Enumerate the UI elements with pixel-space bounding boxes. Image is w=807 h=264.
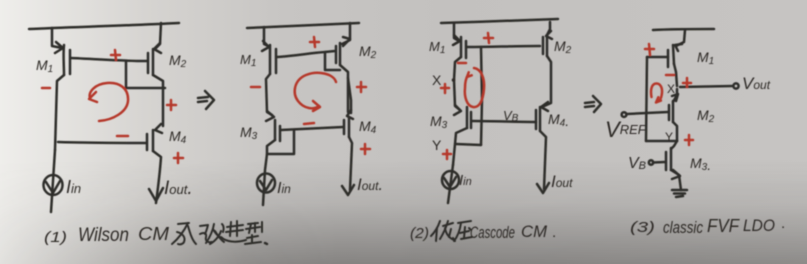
hanzi JI (and) [172, 223, 196, 244]
wire M1 source down left column [55, 75, 64, 150]
svg-text:Cascode: Cascode [470, 223, 515, 242]
wire feedback to Y node (circuit 4) [646, 140, 677, 143]
label M1 (circuit 2) [240, 52, 256, 69]
label VB (circuit 4) [628, 155, 646, 172]
red plus below M4 [174, 153, 183, 163]
arrow Iin chevron (circuit 2) [260, 180, 272, 190]
wire M1 source down to X and M3 (circuit 3) [454, 57, 461, 110]
transistor M1 arrow into channel (circuit 2) [262, 41, 269, 51]
wire M1 source lead from rail (circuit 4) [676, 30, 685, 46]
svg-text:M4.: M4. [548, 111, 569, 129]
svg-text:Wilson: Wilson [78, 225, 129, 246]
wire Y to feedback vertical (circuit 3) [456, 144, 481, 145]
transistor M2 arrow into channel [154, 43, 161, 53]
wire M2 source lead from rail (circuit 3) [547, 22, 550, 35]
transistor M3 arrow (circuit 3) [454, 105, 461, 115]
ground symbol (circuit 4) [672, 190, 687, 197]
transistor M2 channel bar (circuit 2) [339, 43, 342, 65]
transistor M2 arrow (circuit 4) [672, 94, 678, 101]
wire M1 drain lead from rail [52, 28, 62, 48]
red rotation arrow (circuit 4) [651, 84, 662, 102]
svg-text:(2): (2) [410, 225, 429, 242]
wire VB gate rail M3 to M4 (circuit 3) [472, 121, 536, 122]
red annotations circuit 4 [645, 44, 693, 145]
svg-text:Y: Y [432, 137, 442, 153]
wire M3 diode connection (circuit 2) [267, 131, 294, 154]
caption 1: (1) Wilson CM and improved type [44, 224, 169, 246]
transistor M4 channel bar (circuit 2) [348, 117, 351, 137]
transistor M1 gate bar [69, 50, 72, 74]
wire M1 gate to M2 gate (circuit 3) [467, 46, 540, 47]
svg-text:.: . [552, 224, 556, 241]
label M2 (circuit 1) [169, 52, 187, 70]
label M4 (circuit 1) [169, 128, 187, 146]
label Iin (circuit 2) [277, 180, 291, 197]
label X (circuit 4) [667, 82, 675, 96]
label M1 (circuit 1) [36, 57, 53, 75]
transistor M3 gate bar (circuit 2) [279, 126, 282, 141]
transistor M1 gate bar (circuit 4) [667, 50, 670, 67]
wire top supply rail (circuit 3) [441, 19, 558, 23]
terminal VREF circle (circuit 4) [622, 112, 627, 117]
svg-text:M3.: M3. [690, 155, 711, 173]
svg-text:X: X [432, 72, 442, 88]
red plus above gate wire [111, 50, 120, 60]
hanzi GAI (improve) [200, 224, 224, 244]
label Iout (circuit 1) [164, 178, 193, 199]
wire M4 gate to left column [58, 142, 146, 143]
node X dot (circuit 3) [452, 78, 456, 82]
red plus above gate wire (circuit 2) [310, 37, 319, 47]
transistor M3 channel bar (circuit 3) [466, 107, 469, 128]
red annotations circuit 2 [251, 37, 370, 154]
red plus on gate rail (circuit 3) [484, 33, 493, 43]
transistor M1 arrow (circuit 4) [675, 44, 682, 51]
red rotation arrow (circuit 3) [465, 68, 484, 107]
label Y (circuit 3) [432, 137, 442, 153]
label M4 (circuit 3) [548, 111, 569, 129]
transistor M4 arrow into channel [155, 124, 162, 133]
transistor M1 gate bar (circuit 3) [465, 41, 468, 58]
arrow Iin chevron (circuit 3) [444, 177, 456, 187]
red plus right of M2 drain (circuit 2) [357, 82, 366, 92]
transistor M3 channel bar (circuit 2) [274, 120, 277, 140]
transistor M4 arrow (circuit 2) [347, 110, 353, 119]
svg-text:classic: classic [663, 218, 703, 237]
svg-text:Iin: Iin [277, 180, 291, 197]
label M3 (circuit 4) [690, 155, 711, 173]
hanzi YA (pressure) [454, 221, 472, 241]
label Iout (circuit 2) [357, 175, 383, 194]
transistor M1 channel bar (circuit 2) [269, 45, 272, 74]
svg-text:CM: CM [138, 224, 169, 244]
wire M1 gate to M2 gate (circuit 2) [277, 51, 335, 57]
red plus right of M2 drain [167, 100, 176, 110]
label X (circuit 3) [432, 72, 442, 88]
svg-text:Y: Y [665, 130, 673, 144]
wire M2 source lead from rail [155, 23, 161, 49]
transistor M3 gate bar (circuit 3) [470, 112, 473, 128]
red minus on M3-M4 gate wire (circuit 2) [304, 123, 314, 124]
wire M3 gate to M4 gate (circuit 2) [281, 127, 343, 130]
arrow Iout (circuit 3) [537, 183, 549, 193]
wire M1 gate left to feedback (circuit 4) [647, 56, 668, 59]
red plus at Y (circuit 3) [443, 150, 451, 159]
wire M2 drain down to M4 (circuit 3) [542, 56, 551, 107]
wire M1 drain down to X (circuit 4) [674, 64, 677, 86]
label M2 (circuit 4) [697, 107, 715, 125]
label M3 (circuit 3) [430, 113, 448, 131]
wire feedback from gate rail down to Y (circuit 3) [481, 47, 482, 145]
wire M1 drain lead from rail [264, 27, 268, 46]
wire M2 source lead from rail (circuit 2) [342, 23, 350, 44]
transistor M4 channel bar (circuit 3) [539, 107, 542, 131]
terminal Vout circle (circuit 4) [733, 83, 738, 88]
wire M4 source to Iout (circuit 3) [540, 131, 546, 189]
transistor M1 channel bar (circuit 3) [460, 37, 463, 57]
caption 2: (2) low-voltage cascode CM [410, 225, 429, 242]
transistor M2 gate bar (circuit 3) [542, 37, 545, 54]
transistor M4 gate bar (circuit 2) [343, 120, 346, 134]
arrow Iout (circuit 2) [342, 185, 354, 195]
wire M4 drain lead (circuit 2) [348, 78, 351, 113]
transistor M2 channel bar (circuit 3) [546, 35, 549, 56]
transistor M4 gate bar [146, 134, 149, 150]
transistor M2 gate bar (circuit 2) [335, 46, 338, 63]
transistor M4 arrow (circuit 3) [541, 102, 548, 111]
label M3 (circuit 2) [240, 124, 258, 142]
wire M2 drain jog down to M4 (circuit 2) [340, 65, 348, 112]
transistor M1 channel bar [62, 45, 65, 75]
wire M4 source to Iout [153, 151, 161, 203]
red rotation arrow (circuit 1) [90, 83, 128, 121]
hanzi JIN (advance) [221, 221, 246, 242]
red plus below M4 (circuit 2) [361, 144, 370, 154]
svg-text:FVF: FVF [707, 216, 740, 236]
red plus right of X (circuit 4) [683, 78, 691, 87]
transistor M2 channel bar [152, 49, 155, 75]
hanzi DI (low) [431, 221, 455, 241]
label M2 (circuit 2) [359, 43, 377, 61]
transistor M2 arrow (circuit 2) [343, 37, 350, 46]
label Iin (circuit 1) [66, 177, 81, 197]
transistor M3 channel bar (circuit 4) [670, 148, 673, 170]
svg-text:(1): (1) [44, 229, 67, 246]
terminal VB bullet (circuit 4) [649, 160, 653, 164]
transistor M2 channel bar (circuit 4) [672, 101, 675, 122]
red plus at X (circuit 3) [441, 84, 449, 93]
caption 3: (3) classic FVF LDO [630, 215, 785, 237]
red annotations circuit 3 [441, 33, 493, 159]
wire VREF to M2 gate (circuit 4) [627, 112, 668, 114]
red plus at Y (circuit 4) [685, 135, 693, 145]
label M4 (circuit 2) [359, 118, 377, 136]
label M1 (circuit 3) [429, 39, 445, 56]
caption 2 latin part [470, 222, 556, 242]
hanzi XING (type) [245, 222, 262, 244]
wire M1 source down to M3 (circuit 2) [266, 74, 272, 115]
wire top supply rail (circuit 1) [29, 23, 179, 29]
wire output X to Vout (circuit 4) [680, 86, 733, 87]
wire M3 source down to Iin (circuit 2) [263, 154, 267, 205]
svg-text:X: X [667, 82, 675, 96]
wire VB to M3 gate (circuit 4) [653, 161, 665, 164]
svg-text:LDO: LDO [743, 216, 775, 235]
svg-text:.: . [781, 215, 785, 232]
transistor M2 arrow (circuit 3) [546, 31, 552, 39]
wire top supply rail (circuit 4) [653, 29, 714, 30]
label Iout (circuit 3) [551, 172, 573, 191]
label VB (circuit 3) [503, 108, 519, 124]
wire M2 diode connection (gate to drain) [126, 62, 165, 88]
svg-text:Iout.: Iout. [164, 178, 193, 199]
transistor M1 arrow (circuit 3) [453, 35, 460, 45]
transistor M4 channel bar [152, 130, 155, 151]
arrow Iout (circuit 1) [149, 188, 163, 201]
current source Iin circle (circuit 3) [442, 171, 459, 189]
red minus above X (circuit 4) [666, 74, 674, 77]
wire M1 gate to M2 gate [71, 58, 147, 61]
red minus below M1 (circuit 3) [458, 62, 466, 65]
wire Y down to M3 (circuit 4) [671, 141, 677, 149]
caption 1 period [265, 243, 267, 244]
label VREF (circuit 4) [605, 117, 647, 142]
label Iin (circuit 3) [459, 172, 472, 189]
red minus at M1 [42, 87, 50, 90]
wire M1 drain lead from rail (circuit 3) [454, 24, 459, 41]
transistor M2 gate bar [147, 53, 150, 73]
transistor M1 gate bar (circuit 2) [275, 49, 278, 73]
wire through Iin source [51, 150, 55, 212]
wire M2 source up to X (circuit 4) [673, 89, 677, 102]
transistor M4 gate bar (circuit 3) [535, 110, 538, 129]
wire through Iin (circuit 3) [448, 165, 453, 203]
wire M3 source to Y node (circuit 3) [453, 128, 467, 165]
label M1 (circuit 4) [697, 49, 714, 67]
wire M3 source with arrow to ground (circuit 4) [671, 170, 681, 190]
current source Iin circle (circuit 2) [257, 174, 275, 193]
transistor M3 arrow into channel (circuit 2) [266, 111, 274, 121]
label Y (circuit 4) [665, 130, 673, 144]
arrow Iin chevron [46, 181, 60, 193]
wire M2 drain jog down [153, 75, 163, 126]
red minus at M1 (circuit 2) [251, 86, 260, 89]
transistor M1 channel bar (circuit 4) [673, 45, 674, 64]
wire top supply rail (circuit 2) [247, 23, 359, 28]
red plus top left (circuit 4) [645, 44, 654, 55]
label Vout (circuit 4) [742, 74, 771, 93]
wire M2 diode connection (circuit 2) [325, 52, 340, 70]
label M2 (circuit 3) [554, 38, 572, 56]
wire feedback vertical down to Y (circuit 4) [646, 57, 647, 141]
red minus on M4 gate wire [117, 135, 128, 138]
current source Iin circle (circuit 1) [44, 175, 63, 195]
wire M2 drain down to Y (circuit 4) [673, 122, 677, 141]
transistor M3 gate bar (circuit 4) [665, 152, 668, 170]
arrow implies (1 to 2) [198, 91, 214, 109]
red annotations circuit 1 [42, 50, 183, 163]
transistor M3 arrow (circuit 4) [672, 170, 680, 179]
svg-text:(3): (3) [630, 219, 655, 236]
svg-text:CM: CM [521, 222, 548, 241]
red rotation arrow (circuit 2) [295, 73, 336, 108]
arrow implies (3 to 4) [585, 96, 601, 112]
transistor M2 gate bar (circuit 4) [668, 105, 671, 120]
transistor M1 arrow into channel [55, 42, 63, 53]
wire M4 source to Iout (circuit 2) [349, 137, 352, 190]
